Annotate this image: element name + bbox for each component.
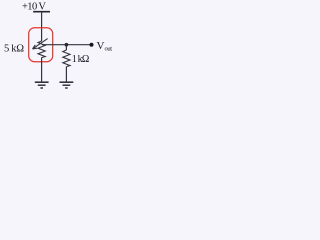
- potentiometer wiper arrow: [33, 39, 48, 49]
- ground symbol (left): [35, 82, 49, 88]
- wire: potentiometer bottom to ground: [41, 58, 43, 82]
- wire: rail to potentiometer top: [41, 12, 43, 41]
- red highlight annotation around potentiometer: [29, 28, 53, 62]
- resistor R2 body (1 kOhm zigzag): [63, 50, 70, 67]
- wire: junction down to R2: [65, 45, 67, 50]
- svg-text:out: out: [105, 46, 113, 53]
- potentiometer R1 body (5 kOhm zigzag): [38, 41, 45, 58]
- svg-text:V: V: [97, 40, 105, 52]
- ground symbol (right): [60, 82, 74, 88]
- output terminal dot: [90, 43, 94, 47]
- svg-text:+10 V: +10 V: [22, 1, 46, 12]
- wire: R2 to ground: [65, 67, 67, 82]
- power rail bar: [33, 11, 50, 13]
- wire: wiper output to Vout: [42, 44, 91, 46]
- svg-text:5 kΩ: 5 kΩ: [4, 44, 24, 55]
- svg-text:1 kΩ: 1 kΩ: [72, 54, 90, 65]
- junction node dot: [65, 43, 69, 47]
